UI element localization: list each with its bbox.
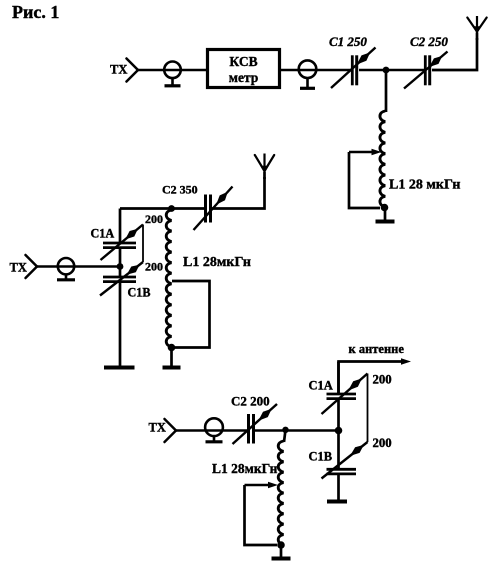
inductor L1 tap bracket wire (top) bbox=[349, 152, 380, 208]
svg-text:метр: метр bbox=[229, 70, 259, 85]
inductor L1 coil (bottom) bbox=[278, 441, 283, 545]
svg-text:C2 200: C2 200 bbox=[231, 394, 270, 409]
svg-text:200: 200 bbox=[145, 260, 163, 274]
ground symbol (top) bbox=[384, 208, 387, 222]
inductor L1 tap wire bracket (middle) bbox=[172, 281, 210, 348]
svg-text:200: 200 bbox=[373, 373, 392, 387]
variable capacitor C2 arrow bbox=[404, 52, 448, 89]
svg-text:C2 250: C2 250 bbox=[410, 34, 448, 49]
wire C1B to ground (bottom) bbox=[337, 474, 340, 500]
capacitor C1A arrow (bottom) bbox=[322, 374, 368, 415]
capacitor C1B arrow (middle) bbox=[100, 262, 143, 296]
antenna feed arrow к антенне (bottom) bbox=[337, 362, 340, 394]
wire C1A up to antenna corner (bottom) bbox=[337, 362, 340, 394]
inductor L1 tap bracket wire (bottom) bbox=[245, 485, 278, 545]
ground symbol under L1 (middle) bbox=[170, 348, 173, 368]
SWR meter box КСВ метр bbox=[208, 50, 280, 88]
wire node E up to C1A (bottom) bbox=[337, 399, 340, 431]
junction dot L1 bottom (middle) bbox=[168, 344, 176, 352]
node A junction dot (top) bbox=[383, 67, 390, 74]
svg-text:КСВ: КСВ bbox=[229, 54, 257, 69]
wire node E down to C1B (bottom) bbox=[337, 431, 340, 470]
inductor L1 coil (middle) bbox=[166, 210, 171, 347]
svg-text:C1B: C1B bbox=[128, 286, 151, 300]
svg-text:ТХ: ТХ bbox=[10, 261, 27, 275]
svg-text:C2 350: C2 350 bbox=[162, 183, 198, 197]
node B junction dot (middle) bbox=[117, 263, 124, 270]
wire C1 to node A (top) bbox=[359, 69, 386, 72]
wire node A to capacitor C2 (top) bbox=[386, 69, 424, 72]
wire SWR meter to coax J2 (top) bbox=[280, 69, 352, 72]
variable capacitor C2 arrow (bottom) bbox=[233, 404, 278, 444]
svg-text:C1A: C1A bbox=[91, 227, 115, 241]
split capacitor C1B plates (bottom) bbox=[327, 468, 357, 471]
wire node D down to inductor (bottom) bbox=[284, 430, 286, 442]
gang link line C1A-C1B (bottom) bbox=[367, 374, 369, 443]
coax connector with chassis stub (middle) bbox=[58, 258, 74, 274]
node C junction dot at L1 top (middle) bbox=[168, 205, 175, 212]
coax connector J2 with chassis stub (top) bbox=[299, 60, 317, 78]
antenna symbol WA1 (top) bbox=[476, 16, 478, 33]
variable capacitor C2 plates (middle) bbox=[204, 195, 207, 223]
wire C2 to node D (bottom) bbox=[255, 429, 339, 432]
ground symbol under C1B (bottom) bbox=[327, 500, 347, 504]
variable capacitor C2 plates (bottom) bbox=[247, 414, 250, 444]
antenna symbol (middle) bbox=[263, 154, 265, 173]
node D junction dot at L1 (bottom) bbox=[282, 427, 288, 433]
wire TX to coax connector (bottom) bbox=[176, 429, 247, 432]
svg-text:L1 28мкГн: L1 28мкГн bbox=[212, 461, 278, 476]
wire top node horizontal (middle) bbox=[120, 207, 204, 210]
variable capacitor C1 plates (top) bbox=[351, 55, 354, 85]
connector XW1 TX plug (top) bbox=[127, 59, 139, 71]
wire node B down to C1B (middle) bbox=[119, 267, 122, 278]
variable capacitor C1 arrow bbox=[331, 48, 376, 89]
svg-text:C1 250: C1 250 bbox=[329, 34, 367, 49]
wire C1B down to ground (middle) bbox=[119, 282, 122, 366]
svg-text:C1B: C1B bbox=[309, 450, 333, 464]
capacitor C1A arrow (middle) bbox=[101, 225, 144, 261]
svg-text:200: 200 bbox=[145, 212, 163, 226]
inductor L1 tap arrow (top) bbox=[349, 151, 372, 153]
gang link line C1A-C1B (middle) bbox=[142, 225, 144, 263]
coax connector with chassis stub (bottom) bbox=[205, 418, 223, 436]
svg-text:ТХ: ТХ bbox=[110, 63, 127, 77]
wire node B up to C1A (middle) bbox=[119, 249, 122, 267]
svg-text:Рис. 1: Рис. 1 bbox=[12, 2, 59, 22]
split capacitor C1B plates (middle) bbox=[103, 276, 136, 279]
inductor L1 coil (top) bbox=[380, 111, 385, 207]
wire C2 to antenna corner (top) bbox=[432, 38, 477, 70]
split capacitor C1A plates (bottom) bbox=[327, 393, 357, 396]
wire top node to C1A (middle) bbox=[119, 209, 122, 244]
variable capacitor C2 arrow (middle) bbox=[194, 187, 233, 231]
ground symbol under C1B (middle) bbox=[104, 366, 135, 370]
junction dot L1 bottom (top) bbox=[381, 204, 389, 212]
variable capacitor C2 plates (top) bbox=[424, 55, 427, 85]
svg-text:200: 200 bbox=[373, 436, 392, 450]
wire TX to coax J1 (top) bbox=[138, 69, 206, 72]
inductor L1 tap arrow (bottom) bbox=[245, 484, 269, 486]
connector TX plug (middle) bbox=[26, 255, 38, 267]
wire node A down to inductor L1 (top) bbox=[385, 70, 388, 112]
svg-text:L1 28 мкГн: L1 28 мкГн bbox=[389, 178, 460, 193]
wire C2 to antenna corner (middle) bbox=[211, 177, 265, 209]
coax connector J1 with chassis stub (top) bbox=[164, 62, 181, 79]
svg-text:ТХ: ТХ bbox=[149, 421, 166, 435]
svg-text:к антенне: к антенне bbox=[349, 342, 405, 356]
svg-text:C1A: C1A bbox=[309, 379, 333, 393]
ground symbol under L1 (bottom) bbox=[280, 545, 283, 559]
wire TX to coax connector (middle) bbox=[37, 265, 120, 268]
capacitor C1B arrow (bottom) bbox=[322, 442, 368, 479]
split capacitor C1A plates (middle) bbox=[103, 242, 136, 245]
svg-text:L1 28мкГн: L1 28мкГн bbox=[183, 255, 251, 270]
junction dot L1 bottom (bottom) bbox=[277, 541, 285, 549]
node E junction dot at C1A/C1B (bottom) bbox=[335, 427, 343, 435]
connector TX plug (bottom) bbox=[165, 419, 177, 431]
